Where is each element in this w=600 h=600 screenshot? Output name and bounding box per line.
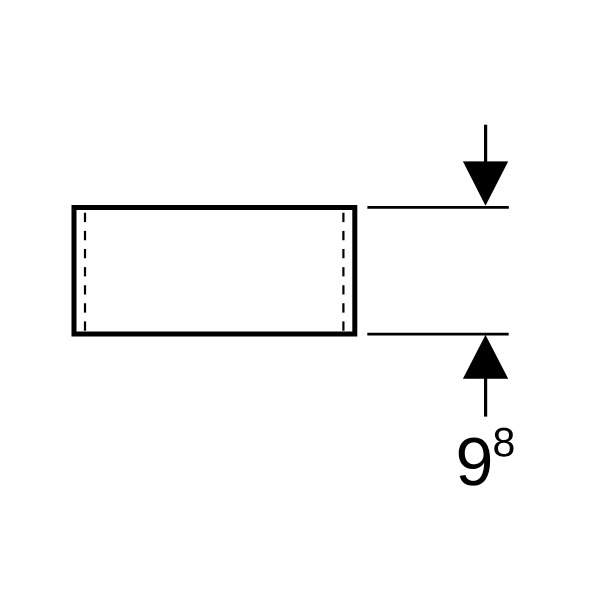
dashed line right bbox=[342, 213, 344, 331]
arrow down head bbox=[463, 161, 508, 205]
dashed line left bbox=[84, 213, 86, 331]
dimension extension line top bbox=[367, 206, 508, 209]
dimension extension line bottom bbox=[367, 333, 508, 336]
dimension label superscript digit 8 bbox=[494, 428, 513, 457]
dimension label digit 9 bbox=[459, 438, 490, 486]
arrow up stem bbox=[484, 377, 487, 417]
arrow down stem bbox=[484, 125, 487, 164]
arrow up head bbox=[463, 335, 508, 379]
cabinet outline rectangle bbox=[74, 208, 355, 335]
